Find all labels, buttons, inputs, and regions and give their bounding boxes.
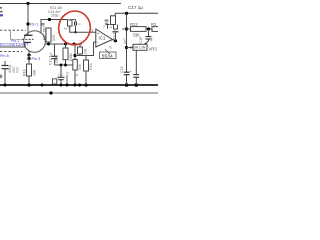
wire R17 bottom lead — [48, 42, 50, 44]
node rail junction c — [41, 84, 44, 87]
wire VR3 top right — [148, 29, 150, 37]
svg-text:1n: 1n — [77, 22, 81, 26]
svg-text:4: 4 — [110, 26, 112, 30]
svg-text:C19: C19 — [139, 37, 143, 44]
capacitor C21 plates — [133, 74, 139, 76]
resistor R17 box — [46, 28, 51, 42]
svg-text:4n7: 4n7 — [123, 38, 127, 44]
node cathode bus c — [73, 43, 76, 46]
capacitor C17 body box — [111, 16, 116, 25]
node cathode bus b — [64, 43, 67, 46]
node rail junction d — [60, 84, 63, 87]
wire cathode down — [28, 51, 30, 64]
svg-text:IC1: IC1 — [99, 36, 106, 41]
wire -in — [94, 41, 96, 43]
svg-text:3: 3 — [91, 29, 93, 33]
wire main right column — [126, 13, 128, 72]
wire grid branch faint — [10, 30, 12, 39]
VR3 wiper arrow — [145, 41, 149, 45]
bright network: parallel cap — [74, 22, 76, 26]
wire plate top lead — [41, 20, 68, 33]
capacitor Ck plates — [2, 65, 9, 67]
wire Ck top stub — [4, 61, 6, 66]
svg-text:Pin 1: Pin 1 — [30, 22, 39, 26]
svg-text:R22: R22 — [130, 22, 138, 27]
resistor R19 box — [78, 47, 83, 54]
wire R20 stubs — [65, 44, 67, 48]
label small x mark — [42, 23, 45, 25]
svg-text:Pin 8: Pin 8 — [0, 54, 9, 58]
bright network: top link — [70, 20, 76, 22]
triode V1a envelope — [24, 31, 46, 53]
svg-text:1n: 1n — [66, 71, 70, 75]
svg-text:10n: 10n — [58, 73, 64, 77]
wire output top rail — [115, 12, 158, 14]
red highlight ellipse — [56, 9, 93, 48]
wire VR3 left lead — [127, 47, 134, 49]
capacitor C20 plates — [124, 71, 130, 73]
svg-text:R18: R18 — [89, 63, 93, 70]
node output — [114, 39, 117, 42]
svg-text:10K: 10K — [83, 48, 87, 55]
svg-text:6: 6 — [110, 46, 112, 50]
node rail junction f — [74, 84, 77, 87]
node pin3 lower — [27, 57, 30, 60]
op-amp IC1 triangle — [96, 29, 113, 47]
blue labels — [0, 22, 40, 61]
wire grid ext faint — [11, 39, 23, 41]
wire output — [113, 40, 116, 41]
node top rail — [125, 12, 128, 15]
op-amp pin7 stub — [107, 25, 109, 29]
wire mid bus — [55, 64, 73, 66]
capacitor C17 U plate — [114, 25, 118, 30]
resistor small box on rail — [53, 79, 57, 84]
resistor R23 box — [152, 27, 160, 32]
svg-text:R17 2K7: R17 2K7 — [42, 26, 46, 40]
wire R18 lead to rail — [85, 71, 87, 85]
node rail junction i — [125, 83, 129, 87]
svg-text:220K: 220K — [54, 55, 58, 64]
potentiometer VR3 box — [133, 44, 147, 50]
triode V1a cathode — [24, 41, 31, 43]
wire VR3 bottom — [135, 50, 137, 74]
resistor R20 box — [63, 48, 68, 60]
resistor Rk box — [27, 64, 32, 76]
label left-edge text fragment — [0, 7, 3, 12]
triode V1a grid — [22, 38, 34, 40]
svg-text:R16: R16 — [22, 69, 26, 76]
svg-text:+: + — [97, 31, 100, 36]
wire C20 lead — [126, 75, 128, 85]
node pin3 upper — [27, 53, 30, 56]
wire C17 top lead — [114, 13, 117, 16]
wire dashed pin8 feed — [0, 51, 22, 53]
VR3 wiper arrowhead — [144, 43, 146, 45]
node mid bus a — [64, 64, 67, 67]
svg-text:R2: R2 — [151, 22, 157, 27]
wire C17 lead lower — [115, 32, 117, 41]
node R23 tap — [147, 27, 150, 30]
wire R22 to R23 — [146, 28, 152, 30]
capacitor C17 electrolytic: plate bar — [113, 31, 119, 33]
wire into R22 — [122, 28, 131, 30]
node rail junction j — [135, 83, 139, 87]
node rail junction e — [66, 84, 69, 87]
svg-text:C18 1µ: C18 1µ — [113, 30, 117, 42]
wire Rk lead — [28, 76, 30, 85]
wire long drop — [74, 44, 76, 60]
wire dashed grid feed — [0, 29, 26, 31]
wire cathode bus — [45, 43, 82, 45]
wire to op-amp +in — [70, 26, 96, 32]
svg-text:ECC83/12AX7: ECC83/12AX7 — [0, 42, 29, 47]
svg-text:4n7: 4n7 — [64, 27, 69, 31]
ground rail — [0, 84, 158, 86]
capacitor C13 column — [54, 44, 56, 56]
svg-text:Pin 3: Pin 3 — [32, 57, 41, 61]
node fb tap — [73, 54, 76, 57]
svg-text:VR3: VR3 — [149, 47, 158, 52]
svg-text:100K LIN: 100K LIN — [130, 46, 146, 50]
svg-text:C17 1µ: C17 1µ — [128, 5, 143, 10]
label left-edge fragment lower — [0, 75, 2, 79]
node bright-cap tap — [48, 18, 51, 21]
5534 annotation box — [100, 49, 117, 58]
wire feedback drop — [75, 42, 94, 56]
node rail junction a — [4, 84, 7, 87]
triode V1a anode plate — [24, 34, 33, 36]
bright network: resistor box in loop — [68, 20, 73, 26]
svg-text:63V: 63V — [15, 66, 19, 73]
wire cathode leg — [0, 42, 25, 47]
wire feedback box column — [85, 56, 87, 61]
wire top supply rail — [0, 3, 121, 5]
node rail junction h — [84, 83, 87, 86]
svg-text:220p: 220p — [51, 13, 59, 17]
node cathode bus a — [47, 43, 50, 46]
svg-text:C12 1µ: C12 1µ — [48, 53, 52, 65]
node R22 junction — [125, 27, 128, 30]
svg-text:+: + — [130, 70, 132, 74]
resistor R22 box — [131, 27, 147, 32]
node lower bus — [49, 91, 52, 94]
svg-text:33K: 33K — [133, 32, 141, 37]
svg-text:100K: 100K — [69, 53, 73, 62]
svg-text:5534: 5534 — [102, 54, 113, 60]
svg-text:C15: C15 — [120, 66, 124, 73]
node pin1 — [26, 22, 29, 25]
wire lower bus — [0, 92, 158, 94]
polarity marks — [105, 20, 109, 25]
resistor box column1 — [73, 60, 78, 71]
svg-text:10K: 10K — [33, 69, 37, 76]
wire anode riser V1 — [27, 4, 29, 36]
node rail junction b — [27, 83, 30, 86]
text labels — [8, 5, 157, 78]
node bright net to +in — [74, 31, 76, 33]
capacitor C bottom mid — [60, 65, 62, 77]
node plate riser junction — [26, 2, 29, 5]
capacitor C19 plates — [146, 36, 152, 38]
svg-text:4n: 4n — [149, 38, 153, 42]
wire small stub column — [66, 75, 68, 85]
svg-text:7: 7 — [103, 25, 105, 29]
label left-edge blue fragment — [0, 14, 3, 16]
svg-text:82K: 82K — [52, 34, 56, 41]
node rail junction g — [78, 84, 81, 87]
resistor R18 box — [84, 60, 89, 71]
wire Ck bottom lead — [4, 69, 6, 85]
node mid bus c — [60, 64, 63, 67]
svg-text:56K: 56K — [78, 63, 82, 70]
node VR3 left — [125, 46, 128, 49]
